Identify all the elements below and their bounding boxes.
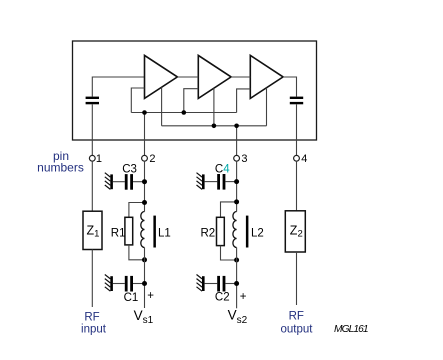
ground chassis for C2 — [197, 275, 205, 292]
wire: amp3 output to output cap — [283, 77, 296, 97]
ground chassis for C1 — [105, 275, 113, 292]
wire: amp1 bottom tap — [161, 87, 163, 126]
pin 4 terminal — [294, 155, 300, 161]
svg-text:3: 3 — [241, 153, 247, 165]
wire: pin 4 to Z2 — [296, 161, 298, 211]
wire: Vs2 rail (inside box) — [162, 125, 267, 127]
inductor L2 (coil on pin3 line) — [233, 212, 237, 248]
wire: ground to C1 — [113, 283, 125, 285]
resistor R1 — [125, 217, 133, 245]
svg-text:+: + — [147, 290, 154, 302]
wire: C4 to pin3 line — [225, 181, 236, 183]
pin 2 terminal — [142, 155, 148, 161]
svg-text:RF: RF — [84, 311, 99, 323]
op-amp A2 — [198, 55, 231, 98]
wire: pin 3 column upper — [236, 161, 238, 211]
wire: amp1 lower input bracket — [131, 88, 144, 113]
wire: amp3 bottom tap — [266, 88, 268, 126]
junction on Vs2 rail at amp2 tap — [212, 124, 217, 129]
svg-text:L2: L2 — [251, 227, 264, 239]
junction C3/pin2 — [142, 179, 147, 184]
svg-text:L1: L1 — [158, 227, 171, 239]
svg-text:C4: C4 — [215, 164, 230, 176]
junction on Vs1 rail at amp2 bracket — [182, 110, 187, 115]
wire: Z1 to RF input — [91, 250, 93, 308]
capacitor internal output (right, horizontal plates) — [290, 97, 303, 105]
svg-text:C3: C3 — [122, 163, 137, 175]
wire: input cap bottom to pin 1 — [91, 104, 93, 155]
svg-text:Vs2: Vs2 — [228, 308, 248, 326]
junction C4/pin3 — [234, 179, 239, 184]
wire: C1 to pin2 line — [133, 283, 145, 285]
svg-text:Vs1: Vs1 — [134, 308, 154, 326]
wire: R1 bottom rail — [129, 245, 145, 260]
svg-text:R2: R2 — [201, 227, 216, 239]
wire: pin 2 column lower — [144, 248, 146, 309]
pin 1 terminal — [89, 155, 95, 161]
svg-text:2: 2 — [149, 153, 155, 165]
resistor R2 — [217, 217, 225, 245]
wire: ground to C4 — [205, 181, 218, 183]
junction on Vs1 rail at pin2 — [142, 110, 147, 115]
wire: ground to C3 — [113, 181, 125, 183]
capacitor C4 — [217, 174, 225, 190]
impedance Z1 — [83, 211, 102, 249]
wire: pin 3 column lower — [236, 248, 238, 309]
wire: Vs1 rail (inside box) — [131, 112, 236, 114]
wire: R2 bottom rail — [221, 246, 237, 260]
svg-text:4: 4 — [301, 153, 307, 165]
junction on Vs2 rail at pin3 — [234, 124, 239, 129]
svg-text:R1: R1 — [111, 227, 126, 239]
label RF output — [281, 311, 314, 336]
wire: input cap top to amp1 input — [92, 77, 144, 97]
junction R2 top — [234, 199, 239, 204]
inductor L1 core bar — [153, 216, 156, 248]
op-amp A1 — [145, 55, 178, 98]
capacitor C3 — [125, 174, 133, 190]
wire: C2 to pin3 line — [225, 283, 236, 285]
junction R1 top — [142, 200, 147, 205]
capacitor C2 — [217, 276, 225, 292]
capacitor internal input (left, horizontal plates) — [86, 97, 99, 105]
wire: amp1 output to amp2 input — [177, 76, 198, 78]
svg-text:numbers: numbers — [37, 161, 84, 175]
wire: Z2 to RF output — [296, 252, 298, 305]
junction R1 bottom — [142, 257, 147, 262]
svg-text:1: 1 — [96, 153, 102, 165]
inductor L2 core bar — [246, 216, 249, 248]
IC module outline box — [73, 41, 317, 140]
wire: amp2 bottom tap — [213, 88, 215, 126]
wire: pin 2 column upper — [144, 161, 146, 211]
inductor L1 (coil on pin2 line) — [141, 212, 145, 248]
svg-text:C1: C1 — [124, 292, 139, 304]
wire: ground to C2 — [205, 283, 218, 285]
label: pin numbers — [37, 149, 84, 175]
wire: R2 top rail — [221, 202, 237, 217]
svg-text:+: + — [240, 291, 247, 303]
impedance Z2 — [285, 211, 305, 252]
junction C2/pin3 — [234, 281, 239, 286]
wire: pin 2 drop from Vs1 rail — [144, 113, 146, 156]
pin 3 terminal — [234, 155, 240, 161]
svg-text:RF: RF — [289, 311, 304, 323]
ground chassis for C3 — [105, 173, 113, 190]
svg-text:output: output — [281, 324, 314, 336]
op-amp A3 — [250, 55, 283, 98]
svg-text:input: input — [81, 323, 107, 335]
wire: output cap bottom to pin 4 — [296, 104, 298, 155]
label RF input — [81, 311, 107, 335]
ground chassis for C4 — [197, 173, 205, 190]
svg-text:C2: C2 — [215, 292, 230, 304]
wire: pin 1 to Z1 — [91, 161, 93, 211]
wire: pin 3 drop from Vs2 rail — [236, 126, 238, 156]
wire: C3 to pin2 line — [133, 181, 145, 183]
wire: amp3 lower input bracket — [237, 89, 251, 113]
capacitor C1 — [125, 276, 133, 292]
wire: amp2 output to amp3 input — [231, 76, 250, 78]
junction R2 bottom — [234, 258, 239, 263]
wire: R1 top rail — [129, 203, 145, 218]
wire: amp2 lower input bracket — [184, 89, 199, 113]
junction C1/pin2 — [142, 281, 147, 286]
svg-text:MGL161: MGL161 — [334, 324, 368, 335]
